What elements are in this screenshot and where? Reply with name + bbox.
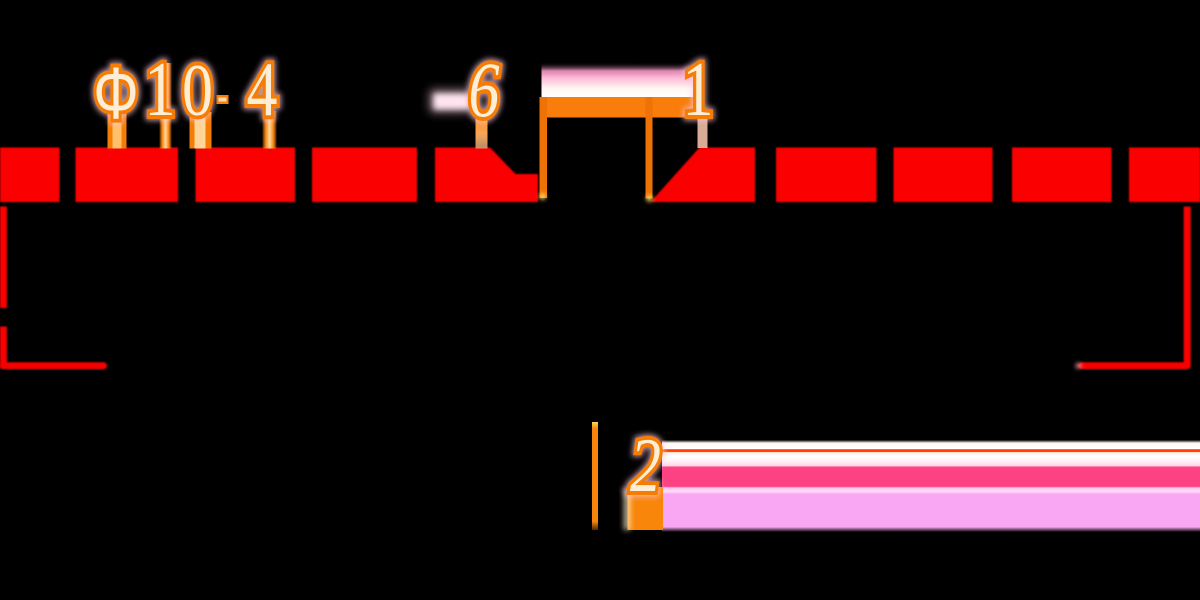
- svg-text:Φ: Φ: [93, 52, 138, 133]
- svg-text:2: 2: [630, 424, 661, 509]
- svg-text:4: 4: [247, 47, 278, 133]
- svg-text:6: 6: [468, 47, 499, 134]
- svg-text:1: 1: [683, 47, 714, 133]
- svg-text:0: 0: [182, 49, 213, 132]
- svg-text:1: 1: [145, 47, 176, 133]
